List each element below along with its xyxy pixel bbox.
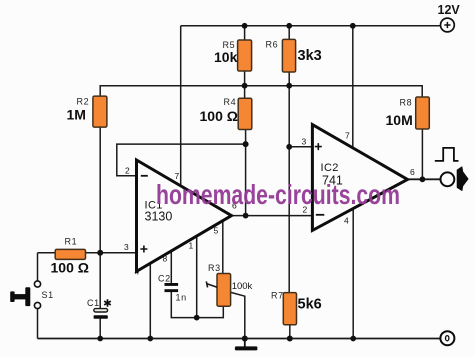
svg-text:4: 4 — [135, 267, 140, 277]
wire IC2 output pin 6 to terminal — [407, 178, 440, 180]
op-amp IC2 741 — [302, 125, 416, 231]
svg-text:1M: 1M — [67, 107, 86, 123]
svg-text:IC2: IC2 — [321, 162, 339, 174]
node IC1 pin3 / R1 / R2 / C1 — [97, 250, 103, 256]
node rail / IC1 pin4 — [147, 336, 153, 342]
node top rail / R5 — [242, 23, 248, 29]
wire IC2 pin 3 stub — [289, 146, 312, 148]
node bus / R5-R4 — [242, 83, 248, 89]
supply terminal 12V — [438, 3, 461, 32]
node feedback / R4 — [243, 141, 249, 147]
svg-text:7: 7 — [345, 131, 350, 141]
node rail / R7 — [287, 336, 293, 342]
wire IC1 pin 7 supply drop — [180, 26, 182, 186]
wire IC1 output pin 6 to IC2 pin 2 — [232, 215, 313, 217]
wire C1 bottom to ground rail — [99, 319, 101, 339]
wire R8 bottom to output line — [421, 129, 423, 179]
svg-text:100 Ω: 100 Ω — [51, 260, 89, 276]
wire IC2 pin 4 to ground rail — [352, 208, 354, 338]
plus sign IC2 — [315, 143, 322, 150]
svg-text:R6: R6 — [266, 40, 279, 50]
svg-text:R4: R4 — [224, 97, 237, 107]
svg-text:3k3: 3k3 — [298, 48, 322, 64]
svg-text:R2: R2 — [77, 97, 90, 107]
wire R7 bottom to ground rail — [289, 325, 291, 339]
resistor R2 1M — [67, 96, 107, 127]
resistor R6 3k3 — [266, 39, 322, 72]
resistor R8 10M — [386, 97, 430, 129]
wire IC1 pin 4 to ground rail — [149, 263, 151, 339]
wire R5 top stub — [244, 26, 246, 40]
node top rail / R6 — [286, 23, 292, 29]
resistor R5 10k — [214, 40, 252, 71]
potentiometer R3 100k — [206, 263, 252, 306]
wire IC1 pin 8 to C2 — [170, 251, 172, 284]
output terminal with pulse waveform symbol — [435, 148, 468, 191]
node rail / C1 — [97, 336, 103, 342]
svg-text:C2: C2 — [158, 274, 171, 284]
svg-text:R8: R8 — [400, 98, 413, 108]
wire IC1 pin 1 vertical — [196, 236, 198, 318]
svg-text:5: 5 — [214, 226, 219, 236]
minus sign IC1 — [141, 175, 148, 177]
node output line / R8 — [420, 176, 426, 182]
svg-text:3: 3 — [124, 242, 129, 252]
op-amp IC1 3130 — [124, 160, 237, 277]
svg-text:100 Ω: 100 Ω — [200, 108, 238, 124]
svg-text:8: 8 — [163, 254, 168, 264]
svg-text:10k: 10k — [214, 49, 238, 65]
svg-text:3130: 3130 — [145, 210, 173, 224]
wire bottom ground rail — [38, 338, 441, 340]
resistor R1 100ohm — [51, 237, 89, 276]
resistor R4 100ohm — [200, 97, 252, 130]
wire IC1 pin 3 input line — [38, 252, 137, 254]
svg-text:100k: 100k — [232, 281, 253, 292]
svg-text:1n: 1n — [176, 293, 187, 303]
plus sign IC1 — [140, 246, 147, 253]
wire S1 lower lead — [37, 309, 39, 339]
svg-text:R3: R3 — [208, 263, 221, 273]
svg-text:R1: R1 — [65, 237, 78, 247]
ground return terminal 0V — [440, 331, 454, 345]
wire R6 bottom down to R7 top — [288, 72, 290, 293]
pushbutton switch S1 — [10, 281, 54, 309]
svg-text:C1: C1 — [87, 298, 100, 308]
svg-text:10M: 10M — [386, 112, 413, 128]
svg-text:6: 6 — [410, 167, 415, 177]
svg-text:R7: R7 — [271, 291, 284, 301]
svg-text:homemade-circuits.com: homemade-circuits.com — [156, 179, 400, 210]
wire R2 top horizontal bus to R8 — [100, 86, 422, 97]
wire S1 upper lead — [37, 253, 39, 281]
svg-text:3: 3 — [302, 137, 307, 147]
wire +12V top supply rail — [181, 25, 441, 27]
wire R2 bottom down to input node — [99, 127, 101, 309]
capacitor C1 electrolytic — [87, 298, 111, 319]
ground — [235, 339, 258, 351]
wire R3 slider to ground column — [231, 292, 245, 338]
capacitor C2 1n — [158, 274, 187, 303]
node bus / R6 — [286, 83, 292, 89]
wire R6 top stub — [288, 26, 290, 40]
node rail / ground — [242, 336, 248, 342]
svg-text:1: 1 — [189, 241, 194, 251]
node IC1 output line — [243, 213, 249, 219]
svg-text:2: 2 — [125, 166, 130, 176]
node top rail / IC2 pin7 — [350, 23, 356, 29]
svg-text:4: 4 — [344, 216, 349, 226]
svg-text:S1: S1 — [42, 290, 54, 300]
wire IC1 pin 5 to R3 top — [222, 221, 224, 274]
wire IC1 pin 2 feedback loop — [117, 144, 246, 176]
svg-text:5k6: 5k6 — [298, 297, 322, 313]
wire R5 bottom to R4 top — [244, 71, 246, 98]
minus sign IC2 — [316, 214, 325, 216]
node C2 / pin1 / R3 — [194, 315, 200, 321]
wire C2 bottom node to R3 bottom — [171, 292, 223, 318]
wire R4 bottom down to IC1 output node — [245, 130, 247, 216]
node IC2 pin3 / divider — [286, 144, 292, 150]
node rail / IC2 pin4 — [350, 336, 356, 342]
svg-text:12V: 12V — [438, 3, 461, 17]
resistor R7 5k6 — [271, 291, 322, 325]
wire IC2 pin 7 supply drop — [352, 26, 354, 148]
